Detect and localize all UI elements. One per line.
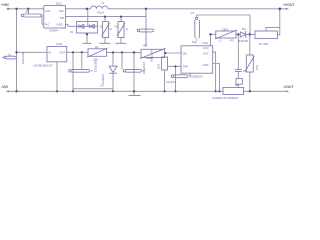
svg-text:GND: GND bbox=[56, 23, 62, 27]
svg-text:GND: GND bbox=[203, 63, 209, 67]
svg-text:VCC: VCC bbox=[203, 46, 209, 50]
svg-text:DIS: DIS bbox=[183, 52, 188, 56]
svg-text:CA555CE: CA555CE bbox=[190, 75, 203, 79]
svg-text:-VIN: -VIN bbox=[1, 85, 8, 89]
svg-text:10K: 10K bbox=[255, 65, 259, 70]
svg-text:DA2: DA2 bbox=[57, 42, 63, 46]
svg-text:100µ/16V: 100µ/16V bbox=[142, 62, 146, 74]
svg-text:R4: R4 bbox=[144, 44, 148, 48]
svg-text:47µH: 47µH bbox=[97, 11, 104, 15]
svg-text:R7 20K: R7 20K bbox=[259, 42, 268, 46]
svg-text:FB: FB bbox=[60, 16, 64, 20]
svg-text:OUT: OUT bbox=[203, 52, 209, 56]
svg-text:10µ/63V: 10µ/63V bbox=[166, 81, 176, 84]
svg-text:+VIN: +VIN bbox=[1, 3, 9, 7]
svg-text:CAD203-A2-ND0R47: CAD203-A2-ND0R47 bbox=[212, 96, 239, 100]
svg-text:X2404: X2404 bbox=[49, 29, 58, 33]
svg-text:C3: C3 bbox=[191, 11, 195, 15]
svg-text:10K: 10K bbox=[157, 64, 161, 69]
svg-text:SW: SW bbox=[59, 9, 64, 13]
svg-text:LM78L05ACLP: LM78L05ACLP bbox=[34, 63, 53, 67]
svg-text:DA3: DA3 bbox=[203, 41, 209, 45]
svg-text:DR1: DR1 bbox=[223, 27, 229, 31]
svg-text:VIN: VIN bbox=[45, 9, 50, 13]
svg-text:100µ/35V: 100µ/35V bbox=[94, 60, 98, 72]
svg-text:10µ: 10µ bbox=[192, 40, 197, 44]
svg-text:D2: D2 bbox=[242, 27, 246, 31]
svg-text:JP1: JP1 bbox=[25, 10, 30, 14]
svg-text:-VOUT: -VOUT bbox=[283, 85, 294, 89]
svg-text:NC: NC bbox=[45, 23, 49, 27]
svg-text:DC1: DC1 bbox=[56, 1, 62, 5]
svg-text:100µ/35V: 100µ/35V bbox=[150, 50, 154, 62]
svg-text:470: 470 bbox=[230, 39, 235, 43]
svg-text:THR: THR bbox=[183, 64, 189, 68]
svg-text:2N4148: 2N4148 bbox=[238, 39, 248, 43]
svg-text:IN: IN bbox=[48, 51, 51, 55]
svg-text:1N4004: 1N4004 bbox=[101, 74, 105, 84]
svg-text:OUT: OUT bbox=[60, 51, 66, 55]
svg-text:100µ/63V: 100µ/63V bbox=[21, 52, 25, 64]
svg-text:R8: R8 bbox=[235, 83, 239, 87]
svg-text:+VOUT: +VOUT bbox=[283, 3, 295, 7]
svg-text:R1: R1 bbox=[95, 45, 99, 49]
